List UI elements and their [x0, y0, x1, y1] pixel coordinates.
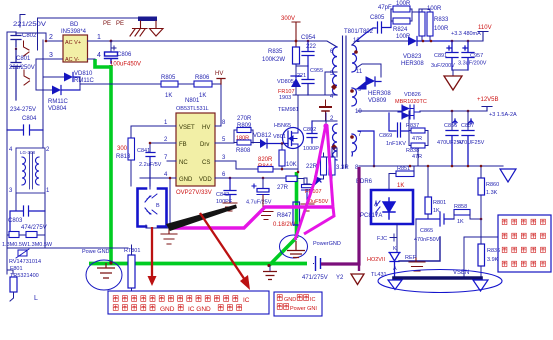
IC N801 OB2535/5311 — [176, 98, 215, 196]
svg-text:VD812: VD812 — [253, 133, 272, 139]
wire C803 right down — [44, 211, 46, 248]
capacitor 4.7uF/25V — [246, 177, 273, 220]
svg-text:HER308: HER308 — [401, 61, 424, 67]
svg-text:T801/T802: T801/T802 — [344, 29, 374, 35]
capacitor C808 1000P — [303, 121, 326, 152]
resistor R860 1.3K — [478, 165, 499, 219]
wire PowerGND green bridge-neg — [95, 59, 111, 67]
svg-text:270R: 270R — [237, 116, 252, 122]
svg-text:2: 2 — [49, 34, 53, 41]
svg-text:FB: FB — [179, 142, 187, 148]
wire VSET pin1 — [131, 126, 176, 138]
svg-text:HV: HV — [215, 71, 223, 77]
svg-text:3uF/200V: 3uF/200V — [431, 63, 455, 69]
wire VDD pin6 — [215, 177, 286, 179]
wire comp gnd — [415, 219, 417, 258]
chassis ground symbol — [130, 21, 147, 36]
annotation text box 3 — [498, 215, 551, 272]
svg-text:MBR1020TC: MBR1020TC — [395, 99, 427, 105]
svg-text:PE: PE — [103, 21, 111, 27]
ground Y2 triangle — [351, 264, 364, 285]
snubber capacitor 47pF — [356, 5, 392, 41]
wire FB pin2 — [150, 143, 176, 152]
svg-text:3.3R: 3.3R — [336, 165, 349, 171]
svg-text:470nF50V: 470nF50V — [414, 237, 440, 243]
svg-text:C954: C954 — [301, 35, 316, 41]
svg-text:GND: GND — [160, 306, 175, 313]
svg-text:1K: 1K — [397, 183, 404, 189]
capacitor VDD gnd bars — [320, 100, 331, 121]
wire main HV bus — [111, 41, 337, 47]
wire purple secondary gnd — [321, 167, 359, 264]
capacitor C804 — [7, 100, 43, 135]
svg-text:OB53TL531L: OB53TL531L — [176, 106, 209, 112]
capacitor C857 470uF25V — [458, 110, 485, 166]
resistor R858 1K — [452, 204, 482, 225]
svg-text:10K: 10K — [286, 162, 297, 168]
svg-text:R808: R808 — [236, 148, 251, 154]
svg-text:221/250V: 221/250V — [9, 65, 35, 71]
svg-text:IC GND: IC GND — [188, 306, 211, 313]
wire magenta right leg — [327, 126, 333, 207]
svg-text:R835: R835 — [268, 49, 283, 55]
svg-text:F801: F801 — [10, 266, 23, 272]
wire aux pin2 — [326, 113, 337, 124]
node magenta apex — [323, 123, 328, 128]
svg-text:RV14731014: RV14731014 — [9, 259, 41, 265]
thermistor RT801 — [124, 245, 140, 291]
capacitor C842 100P — [216, 177, 237, 211]
ground PowerGND ellipse left — [82, 249, 122, 290]
bridge rectifier BD IN5398*4 — [61, 22, 88, 63]
terminal mark top-left — [20, 15, 25, 28]
optocoupler PC817A LED side — [371, 190, 413, 224]
ground IC earth — [161, 228, 177, 244]
svg-text:VD826: VD826 — [404, 92, 421, 98]
wire opto bottom to gnd — [146, 225, 170, 228]
secondary winding 9-10 — [352, 88, 357, 106]
wire magenta horizontal — [170, 207, 333, 228]
svg-text:C842: C842 — [216, 192, 229, 198]
label +12V5B — [477, 97, 517, 118]
svg-text:REF: REF — [405, 255, 417, 261]
svg-text:VD805: VD805 — [277, 79, 294, 85]
resistor R809 270R — [234, 116, 253, 143]
svg-text:VD804: VD804 — [48, 106, 67, 112]
svg-text:C857: C857 — [461, 123, 474, 129]
resistor R808 180R — [234, 136, 260, 155]
svg-text:R824: R824 — [393, 27, 408, 33]
svg-text:+3.3 480mA: +3.3 480mA — [451, 31, 481, 37]
svg-text:4: 4 — [97, 52, 101, 59]
ground GND2 triangle — [500, 169, 516, 182]
svg-text:300: 300 — [117, 146, 128, 152]
svg-text:1K: 1K — [457, 219, 464, 225]
capacitor C856 470uF25V — [437, 110, 464, 166]
secondary winding 7-8 — [352, 134, 357, 156]
svg-text:3.9K: 3.9K — [487, 257, 499, 263]
wire PE feed — [38, 18, 140, 50]
varistor RV — [9, 249, 41, 265]
svg-text:C957: C957 — [470, 53, 483, 59]
svg-text:VSET: VSET — [179, 125, 195, 131]
svg-text:C803: C803 — [8, 218, 23, 224]
svg-text:11: 11 — [356, 69, 363, 75]
svg-text:VD810: VD810 — [74, 71, 93, 77]
svg-text:NC: NC — [179, 160, 188, 166]
svg-text:BD: BD — [70, 22, 79, 28]
diode VD826 MBR1020TC — [395, 92, 487, 119]
wire PowerGND green vertical — [109, 65, 113, 263]
svg-text:300V: 300V — [281, 16, 295, 22]
svg-text:FJC: FJC — [377, 236, 387, 242]
wire L top rail — [6, 32, 8, 274]
resistor 3.3R aux — [321, 148, 349, 179]
svg-text:+3 1.5A-2A: +3 1.5A-2A — [489, 112, 517, 118]
transformer T801/T802 — [325, 29, 374, 185]
wire NC pin7 — [167, 160, 176, 162]
svg-text:A: A — [374, 202, 378, 208]
svg-text:HO2VII: HO2VII — [367, 257, 386, 263]
svg-text:1K: 1K — [165, 93, 172, 99]
ground VSEN left triangle — [388, 280, 402, 290]
svg-text:K: K — [393, 246, 397, 252]
svg-text:100K2W: 100K2W — [262, 57, 285, 63]
resistor R833 100R vertical pair — [419, 6, 449, 41]
wire drain — [293, 95, 337, 128]
svg-text:C891: C891 — [434, 53, 447, 59]
wire pin10 to VD826 — [358, 110, 402, 112]
diode VD804 RM11C — [36, 86, 80, 113]
svg-text:471/275V: 471/275V — [302, 275, 328, 281]
svg-text:10: 10 — [355, 109, 362, 115]
wire Drv pin5 — [215, 142, 234, 144]
resistor R824 100R pair — [391, 1, 419, 40]
spark gap lower — [24, 70, 30, 85]
primary winding 6-4 — [333, 47, 337, 95]
wire VSEN thick trace — [394, 276, 481, 280]
svg-text:TL431: TL431 — [371, 272, 387, 278]
svg-text:IC: IC — [243, 297, 250, 304]
capacitor C865 470nF50V — [414, 212, 454, 243]
svg-text:R805: R805 — [161, 75, 176, 81]
svg-text:IN5398*4: IN5398*4 — [61, 29, 87, 35]
wire GND pin4 — [140, 178, 176, 228]
diode VD8 FR107 clamp — [277, 76, 301, 101]
svg-text:470UF25V: 470UF25V — [458, 140, 485, 146]
annotation arrow A — [148, 227, 157, 286]
svg-text:100uF450V: 100uF450V — [110, 62, 141, 68]
resistor 22R aux — [306, 157, 327, 175]
svg-text:PC817A: PC817A — [360, 213, 382, 219]
ground 110V triangle — [444, 76, 462, 90]
svg-text:PE: PE — [116, 21, 124, 27]
svg-text:R860: R860 — [486, 182, 499, 188]
wire top corner to cap chain — [7, 31, 16, 33]
svg-text:VD809: VD809 — [368, 98, 387, 104]
ground VSEN right triangle — [473, 280, 488, 291]
optocoupler PC817 B side — [138, 189, 167, 227]
svg-text:CS: CS — [202, 160, 210, 166]
capacitor C806 100uF450V — [105, 41, 142, 68]
node bridge pin2 — [45, 40, 48, 43]
svg-text:27R: 27R — [277, 185, 289, 191]
wire PowerGND green bus — [89, 262, 307, 266]
svg-text:+12V5B: +12V5B — [477, 97, 499, 103]
svg-text:1K: 1K — [433, 208, 440, 214]
svg-text:C801: C801 — [16, 56, 31, 62]
svg-text:AC V+: AC V+ — [65, 40, 81, 46]
svg-text:TEM981: TEM981 — [278, 107, 299, 113]
capacitor C841 2.2uF/5V — [137, 148, 162, 186]
resistor R847 0.1R/2W current sense — [273, 202, 300, 228]
resistor 10K gate pulldown — [279, 142, 297, 170]
annotation text box 1 — [108, 291, 269, 314]
svg-text:221/250V: 221/250V — [13, 22, 46, 28]
svg-text:TR5321400: TR5321400 — [10, 273, 39, 279]
wire CS pin3 — [215, 161, 258, 169]
capacitor C891 3uF200V — [431, 40, 458, 70]
aux winding 2-1 — [333, 124, 337, 160]
wire 110V rail — [452, 32, 488, 42]
svg-text:R806: R806 — [195, 75, 210, 81]
svg-text:1.3K: 1.3K — [486, 190, 498, 196]
svg-text:1.3M0.5W1.3M0.5W: 1.3M0.5W1.3M0.5W — [2, 242, 53, 248]
resistor R805 1K — [161, 75, 194, 99]
svg-text:3: 3 — [49, 52, 53, 59]
svg-text:R813: R813 — [116, 154, 131, 160]
resistor 27R — [277, 176, 304, 191]
wire divider to R836 — [464, 219, 497, 277]
resistor R851 1K — [389, 166, 414, 190]
capacitor Y2 471/275V — [302, 256, 344, 281]
svg-text:1903: 1903 — [279, 95, 291, 101]
capacitor C955 221 — [297, 66, 323, 95]
svg-text:VD823: VD823 — [403, 54, 422, 60]
ellipse VSEN highlight — [378, 270, 502, 293]
svg-text:VDD: VDD — [199, 177, 212, 183]
diode FR107 aux — [304, 174, 322, 195]
svg-text:A: A — [393, 266, 397, 272]
clamp resistor R835 100K2W — [262, 16, 308, 76]
wire source — [297, 149, 299, 172]
svg-text:IC: IC — [310, 297, 316, 303]
resistor R836 3.9K — [478, 237, 500, 277]
wire clamp to drain — [296, 84, 308, 95]
svg-text:C802: C802 — [303, 127, 316, 133]
diode VD812 — [253, 133, 288, 148]
wire choke bottom rails — [16, 193, 45, 211]
svg-text:C841: C841 — [137, 148, 150, 154]
svg-text:Power GNI: Power GNI — [290, 306, 317, 312]
wire magenta left leg — [295, 124, 326, 240]
svg-text:1000P: 1000P — [303, 146, 319, 152]
svg-text:B: B — [156, 203, 160, 209]
PE bus bar — [138, 17, 157, 22]
wire bridge pin1 to bus — [88, 40, 112, 42]
wire caps join to gnd — [452, 70, 468, 75]
svg-text:234-275V: 234-275V — [10, 107, 36, 113]
wire choke top connections — [7, 130, 43, 148]
svg-text:1: 1 — [97, 34, 101, 41]
capacitor VDD 10uF/50V — [301, 178, 329, 211]
svg-text:LG-308: LG-308 — [20, 150, 36, 155]
resistor R801 1K comp — [425, 165, 446, 219]
svg-text:C806: C806 — [117, 52, 132, 58]
wire GND2 rail — [359, 165, 503, 167]
svg-text:OVP27V/33V: OVP27V/33V — [176, 190, 212, 196]
mosfet V801 — [273, 107, 304, 149]
svg-text:C804: C804 — [22, 116, 37, 122]
svg-text:47R: 47R — [412, 136, 422, 142]
svg-text:RT801: RT801 — [124, 248, 140, 254]
svg-text:C805: C805 — [370, 15, 385, 21]
wire bridge pin2 — [16, 33, 63, 41]
annotation text box 2 — [274, 292, 322, 316]
svg-text:C955: C955 — [310, 68, 323, 74]
svg-text:C869: C869 — [379, 133, 392, 139]
wire HV pin8 — [215, 125, 221, 127]
svg-text:R833: R833 — [434, 17, 449, 23]
wire HV startup — [80, 77, 161, 90]
wire bridge pin3 — [36, 59, 63, 90]
svg-text:RM11C: RM11C — [74, 78, 95, 84]
svg-text:1nF1KV: 1nF1KV — [386, 141, 406, 147]
resistor R806 1K — [194, 75, 221, 126]
resistor R813 300 — [116, 138, 135, 186]
svg-text:HV: HV — [202, 125, 210, 131]
fuse F801 TR5321400 — [10, 266, 39, 301]
svg-text:474/275V: 474/275V — [21, 225, 47, 231]
svg-text:C865: C865 — [420, 228, 433, 234]
diode VD823 HER308 — [401, 37, 452, 68]
svg-text:47pF: 47pF — [378, 5, 392, 11]
node C806 top — [110, 40, 113, 43]
wire bridge pin4 — [88, 58, 96, 60]
svg-text:R847: R847 — [277, 213, 292, 219]
svg-text:Y2: Y2 — [336, 275, 344, 281]
diode VD809 HER308 loop — [356, 64, 391, 104]
wire opto LED cathode down — [396, 224, 398, 252]
net label FJC — [377, 234, 397, 242]
wire L down — [7, 235, 128, 274]
spark gap upper — [15, 41, 29, 56]
svg-text:Drv: Drv — [200, 142, 209, 148]
svg-text:4.7uF/25V: 4.7uF/25V — [246, 200, 272, 206]
svg-text:RM11C: RM11C — [48, 99, 69, 105]
capacitor C869 1nF1KV — [358, 113, 409, 167]
diode VD810 RM11C — [43, 71, 95, 84]
svg-text:100PF: 100PF — [216, 199, 233, 205]
ground PowerGND ellipse mid — [280, 235, 341, 258]
earth triangle PE — [150, 21, 164, 36]
annotation black trace — [166, 205, 237, 232]
svg-text:HER308: HER308 — [368, 91, 391, 97]
capacitor C954 222 — [301, 35, 317, 66]
wire magenta join down — [304, 207, 334, 234]
svg-text:100R: 100R — [434, 26, 449, 32]
capacitor C801 — [9, 49, 35, 100]
annotation arrow B — [200, 213, 250, 290]
ground under green bus — [263, 264, 277, 280]
resistor R838 47R — [406, 143, 428, 166]
svg-text:GND: GND — [179, 177, 193, 183]
secondary winding 12-11 — [352, 45, 357, 72]
svg-text:1K: 1K — [199, 93, 206, 99]
svg-text:V801: V801 — [273, 134, 286, 140]
capacitor C957 3.3uF200V — [458, 40, 487, 70]
wire right rail N — [42, 40, 44, 130]
capacitor C802 — [11, 32, 37, 47]
svg-text:AC V-: AC V- — [65, 57, 80, 63]
svg-text:3.3uF/200V: 3.3uF/200V — [458, 61, 487, 67]
resistor R837 47R — [406, 111, 428, 145]
svg-text:C802: C802 — [22, 33, 37, 39]
resistor bleeder 1.3M b — [2, 232, 53, 249]
wire green source sense — [269, 172, 297, 266]
common mode choke LG-308 — [9, 147, 50, 194]
wire pin12 to bus — [352, 41, 408, 45]
svg-text:GND: GND — [284, 297, 296, 303]
TL431 — [367, 237, 440, 278]
svg-text:R801: R801 — [433, 200, 446, 206]
capacitor C803 — [8, 206, 47, 235]
svg-text:820R: 820R — [258, 157, 273, 163]
svg-text:47R: 47R — [412, 154, 422, 160]
svg-text:L: L — [34, 295, 38, 302]
resistor R844 820R — [258, 157, 299, 173]
svg-text:Powe GND: Powe GND — [82, 249, 110, 255]
wire opto top to FB — [149, 162, 151, 189]
resistor bleeder 1.3M a — [7, 232, 26, 238]
svg-text:0.18/2W: 0.18/2W — [273, 222, 296, 228]
net label HV — [215, 71, 225, 84]
svg-text:PowerGND: PowerGND — [313, 241, 341, 247]
svg-text:N801: N801 — [185, 98, 200, 104]
